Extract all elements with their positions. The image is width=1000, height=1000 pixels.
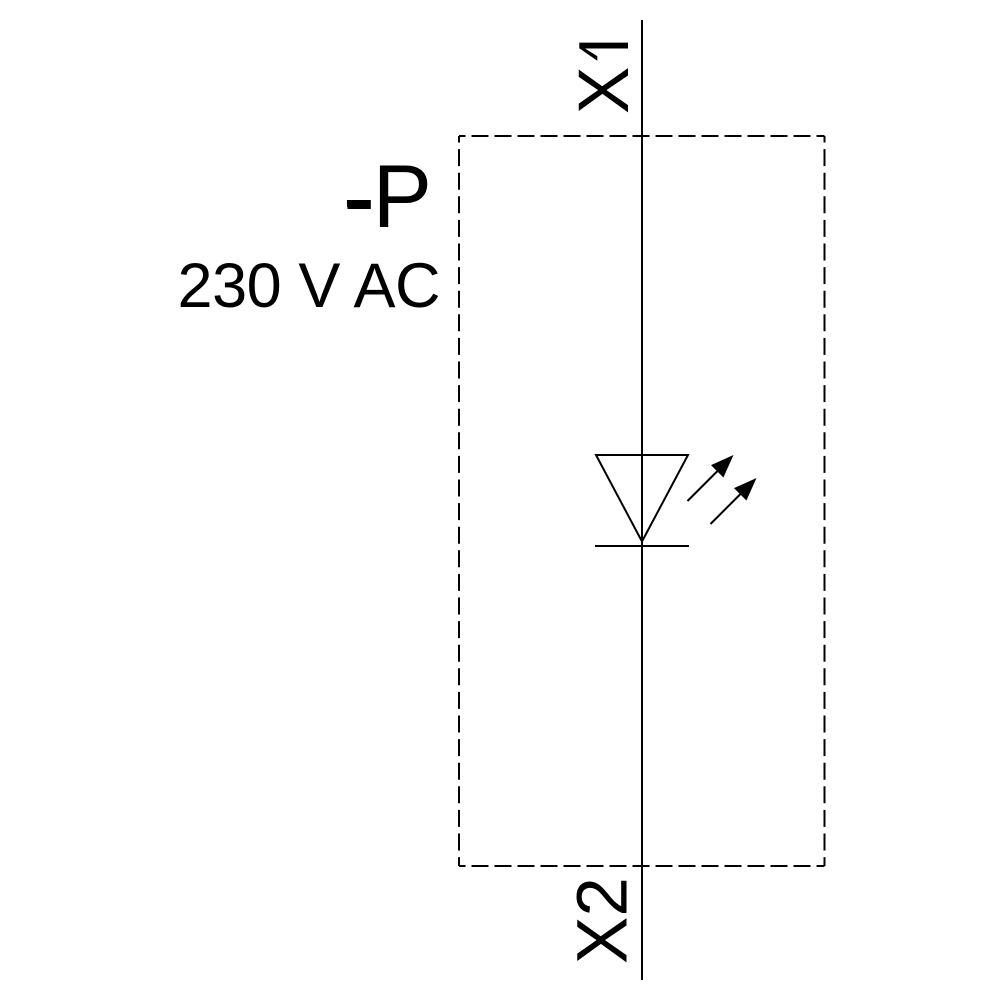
wire: vertical conductor from terminal X1 to terminal X2 (641, 20, 643, 980)
svg-text:-P: -P (343, 146, 432, 246)
LED light-emission arrow 2 (711, 478, 757, 524)
svg-text:X2: X2 (564, 877, 643, 964)
reference designator -P (343, 146, 432, 246)
svg-text:230 V AC: 230 V AC (178, 251, 441, 321)
LED lamp P: cathode bar (595, 545, 689, 547)
LED lamp P: anode triangle (596, 455, 688, 542)
svg-text:X: X (565, 67, 644, 114)
terminal label X1 (565, 43, 644, 114)
LED light-emission arrow 1 (688, 455, 734, 501)
component boundary box (dashed enclosure) (459, 136, 825, 866)
